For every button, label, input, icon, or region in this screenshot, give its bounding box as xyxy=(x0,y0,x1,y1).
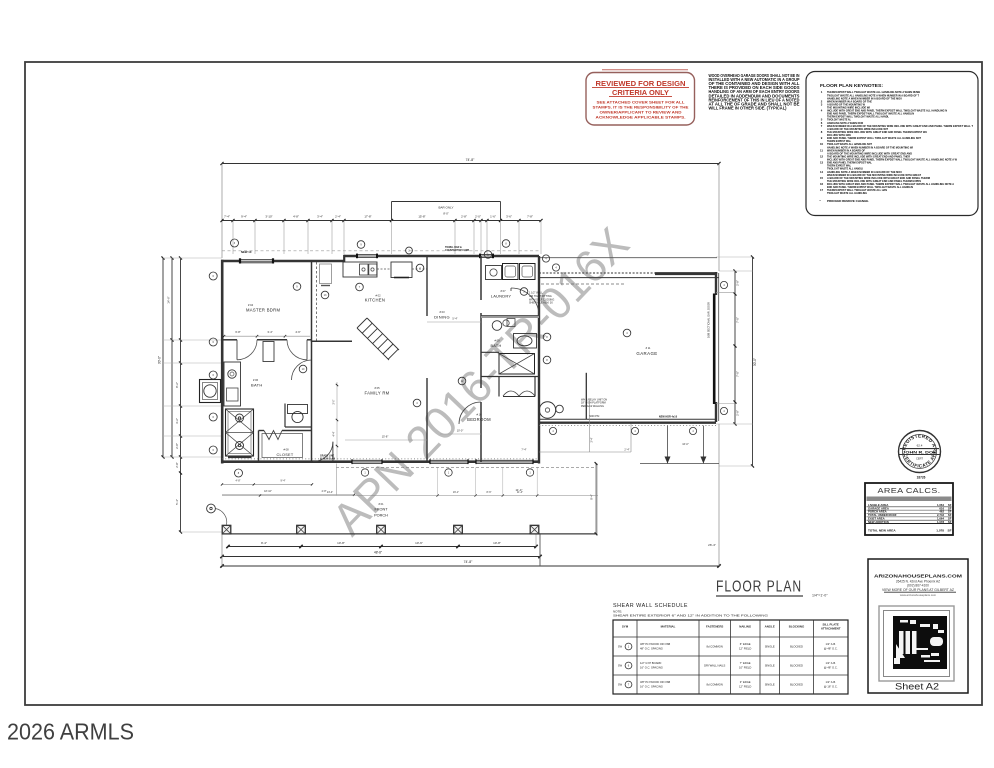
svg-text:GRADE LINE: GRADE LINE xyxy=(320,455,335,458)
svg-text:4: 4 xyxy=(634,430,636,433)
svg-text:1/2" A.B.: 1/2" A.B. xyxy=(826,680,837,684)
svg-text:CERT: CERT xyxy=(916,457,923,461)
bath2 sink oval xyxy=(517,336,532,346)
master closet door arc xyxy=(292,360,312,380)
svg-text:BLOCKING: BLOCKING xyxy=(789,625,805,629)
svg-text:7'-4": 7'-4" xyxy=(224,215,230,219)
svg-text:@ 48" O.C.: @ 48" O.C. xyxy=(824,666,838,670)
family/dining wall xyxy=(426,256,428,316)
svg-text:6: 6 xyxy=(213,449,215,452)
laundry window (top wall) xyxy=(480,254,493,258)
svg-text:12: 12 xyxy=(820,154,824,158)
svg-text:1: 1 xyxy=(529,472,531,475)
svg-text:7'-0": 7'-0" xyxy=(736,371,740,377)
closet wall bedroom xyxy=(498,377,500,397)
svg-text:30'-0": 30'-0" xyxy=(158,356,162,364)
svg-text:SHEAR WALL SCHEDULE: SHEAR WALL SCHEDULE xyxy=(613,603,688,609)
svg-text:CRITERIA ONLY: CRITERIA ONLY xyxy=(612,88,669,97)
bubbles near bar bracket xyxy=(357,241,365,249)
bath2 toilet xyxy=(492,321,502,331)
svg-text:74'-8": 74'-8" xyxy=(464,560,473,564)
svg-text:3'-10": 3'-10" xyxy=(265,215,272,219)
svg-text:SF: SF xyxy=(948,529,952,533)
kitchen counter with sink xyxy=(343,262,377,277)
svg-text:1: 1 xyxy=(448,472,450,475)
svg-text:@ 16" O.C.: @ 16" O.C. xyxy=(824,685,838,689)
exterior wall: top kitchen/laundry section xyxy=(344,255,539,258)
svg-text:8'-0": 8'-0" xyxy=(443,212,448,216)
porch front dimension xyxy=(222,533,597,535)
svg-text:4: 4 xyxy=(723,410,725,413)
svg-text:16'-0": 16'-0" xyxy=(682,442,689,446)
svg-text:7" EDGE: 7" EDGE xyxy=(740,661,751,665)
shower with X xyxy=(226,409,254,456)
garage apron dimension xyxy=(667,426,669,464)
shear wall schedule table xyxy=(613,620,848,694)
garage keynote bubbles xyxy=(720,281,727,288)
exterior wall: bedroom/garage divider xyxy=(538,256,540,464)
svg-text:BLOCKED: BLOCKED xyxy=(790,645,803,649)
svg-text:26'-4": 26'-4" xyxy=(708,543,716,547)
svg-text:# 05: # 05 xyxy=(374,386,380,390)
svg-text:4: 4 xyxy=(626,332,628,335)
svg-text:1: 1 xyxy=(628,645,630,649)
family rm vertical dim xyxy=(336,382,338,460)
bubbles under bottom wall xyxy=(361,469,368,476)
svg-text:3'-2": 3'-2" xyxy=(175,418,179,424)
svg-text:# 06: # 06 xyxy=(253,378,259,382)
svg-text:NAILING: NAILING xyxy=(739,625,752,629)
bedroom door arc xyxy=(459,402,481,424)
dotted keynote line along bottom wall xyxy=(222,458,539,460)
svg-text:5'-4": 5'-4" xyxy=(175,499,179,505)
svg-text:5'-4": 5'-4" xyxy=(452,317,457,321)
svg-text:9'-4": 9'-4" xyxy=(241,215,247,219)
svg-text:PORCH: PORCH xyxy=(374,514,388,518)
svg-text:REVIEWED FOR DESIGN: REVIEWED FOR DESIGN xyxy=(596,79,686,88)
svg-text:6: 6 xyxy=(628,664,630,668)
svg-text:6" EDGE: 6" EDGE xyxy=(740,642,751,646)
svg-text:NEW HDR 4x10: NEW HDR 4x10 xyxy=(659,415,678,418)
svg-text:1/2" GYP BOARD: 1/2" GYP BOARD xyxy=(640,661,661,665)
registration seal xyxy=(899,431,941,473)
toilet xyxy=(288,405,308,414)
svg-text:1'-6": 1'-6" xyxy=(490,215,496,219)
exterior utility fixture xyxy=(200,380,221,403)
svg-text:# 01: # 01 xyxy=(378,502,384,506)
svg-text:# 07: # 07 xyxy=(500,289,506,293)
svg-text:48" O.C. SPACING: 48" O.C. SPACING xyxy=(640,647,663,651)
svg-text:4: 4 xyxy=(552,430,554,433)
family rm horizontal dim xyxy=(345,439,427,441)
svg-text:15: 15 xyxy=(820,176,824,180)
svg-text:LAUNDRY: LAUNDRY xyxy=(491,294,512,299)
svg-text:8: 8 xyxy=(238,472,240,475)
overall top dimension line xyxy=(222,163,719,165)
svg-text:8'-6": 8'-6" xyxy=(487,491,492,494)
svg-text:6" BLW SLAB: 6" BLW SLAB xyxy=(320,458,335,461)
porch interior dim line xyxy=(222,495,598,497)
svg-text:@ 48" O.C.: @ 48" O.C. xyxy=(824,647,838,651)
svg-text:ARIZONAHOUSEPLANS.COM: ARIZONAHOUSEPLANS.COM xyxy=(874,574,963,579)
svg-text:4: 4 xyxy=(416,402,418,405)
red review stamp xyxy=(602,69,688,71)
porch keynote bubble xyxy=(207,504,216,513)
title block xyxy=(868,559,968,693)
svg-text:ACKNOWLEDGE APPLICABLE STAMPS.: ACKNOWLEDGE APPLICABLE STAMPS. xyxy=(596,115,686,120)
bubble under closet wall xyxy=(235,469,243,477)
area calcs table xyxy=(865,483,953,535)
svg-text:1/2" A.B.: 1/2" A.B. xyxy=(826,661,837,665)
bath2 vanity xyxy=(514,334,537,349)
svg-text:6: 6 xyxy=(213,416,215,419)
laundry sink counter xyxy=(486,266,502,280)
svg-text:SINGLE: SINGLE xyxy=(765,683,775,687)
svg-text:AREA CALCS.: AREA CALCS. xyxy=(878,486,941,495)
svg-text:1: 1 xyxy=(821,90,823,94)
interior dim segments dining xyxy=(427,321,481,323)
svg-text:9'-4": 9'-4" xyxy=(281,479,286,482)
exterior wall: bottom (house) xyxy=(221,460,540,463)
svg-text:16: 16 xyxy=(820,182,824,186)
svg-text:17'-8": 17'-8" xyxy=(364,215,371,219)
svg-text:SYM: SYM xyxy=(622,625,629,629)
svg-text:TWOLGHT WASTE ALL HANDLING: TWOLGHT WASTE ALL HANDLING xyxy=(827,191,867,195)
svg-text:2'-4": 2'-4" xyxy=(335,215,341,219)
svg-text:74'-8": 74'-8" xyxy=(466,158,475,162)
porch post dimension row xyxy=(228,546,537,548)
svg-text:# 11: # 11 xyxy=(646,346,651,350)
svg-text:10" FIELD: 10" FIELD xyxy=(739,666,751,670)
svg-text:6'-8": 6'-8" xyxy=(235,330,240,334)
svg-text:1/2" A.B.: 1/2" A.B. xyxy=(826,642,837,646)
svg-text:ATTACHMENT: ATTACHMENT xyxy=(821,627,841,631)
svg-text:4'-6": 4'-6" xyxy=(295,330,300,334)
keynote bubble above window xyxy=(231,239,239,247)
thumbnail frame xyxy=(879,606,954,681)
svg-text:WILL FRAME IN OTHER SIDE. (TYP: WILL FRAME IN OTHER SIDE. (TYPICAL) xyxy=(709,105,788,110)
range counter xyxy=(391,262,412,278)
svg-text:SW: SW xyxy=(618,645,623,649)
svg-text:12" FIELD: 12" FIELD xyxy=(739,647,751,651)
vanity counter xyxy=(224,362,241,406)
svg-text:7'-4": 7'-4" xyxy=(521,448,526,452)
svg-text:DRYWALL NAILS: DRYWALL NAILS xyxy=(704,664,725,668)
svg-text:6: 6 xyxy=(213,341,215,344)
svg-text:15'-8": 15'-8" xyxy=(382,435,389,439)
svg-text:48'-8": 48'-8" xyxy=(374,551,382,555)
svg-text:ANGLE: ANGLE xyxy=(765,625,775,629)
porch front edge xyxy=(222,533,597,535)
svg-text:2'-0": 2'-0" xyxy=(475,215,481,219)
svg-text:9: 9 xyxy=(360,244,362,247)
svg-text:8'-2": 8'-2" xyxy=(175,382,179,388)
svg-text:14: 14 xyxy=(820,170,824,174)
master bath door arcs xyxy=(237,340,257,360)
garage interior dim xyxy=(539,451,631,453)
washer and dryer xyxy=(503,264,519,280)
svg-text:4: 4 xyxy=(821,109,823,113)
svg-text:10'-8": 10'-8" xyxy=(493,541,501,545)
svg-text:SW: SW xyxy=(618,683,623,687)
svg-text:FAMILY RM: FAMILY RM xyxy=(365,391,390,396)
porch overall dimension xyxy=(222,556,540,558)
closet bifold door xyxy=(264,431,282,440)
svg-text:8: 8 xyxy=(505,243,507,246)
svg-text:2'-4": 2'-4" xyxy=(624,448,629,452)
svg-text:10'-8": 10'-8" xyxy=(337,541,345,545)
svg-text:TOTAL NEW AREA: TOTAL NEW AREA xyxy=(868,529,896,533)
exterior wall: left xyxy=(221,260,224,464)
svg-text:10'-6": 10'-6" xyxy=(415,541,423,545)
svg-text:DINING: DINING xyxy=(434,315,450,320)
porch divider line xyxy=(335,464,337,496)
second dimension row xyxy=(222,220,541,222)
svg-text:3/8" PLYWOOD OR OSB: 3/8" PLYWOOD OR OSB xyxy=(640,642,670,646)
svg-text:3/8" PLYWOOD OR OSB: 3/8" PLYWOOD OR OSB xyxy=(640,680,670,684)
svg-text:# 09: # 09 xyxy=(494,339,500,343)
svg-text:14'-6": 14'-6" xyxy=(167,296,171,303)
svg-text:5: 5 xyxy=(523,291,525,294)
svg-text:SINGLE: SINGLE xyxy=(765,664,775,668)
master right wall xyxy=(311,261,313,342)
laundry door arc xyxy=(511,288,539,316)
svg-text:SHEAR ENTIRE EXTERIOR 6" AND 1: SHEAR ENTIRE EXTERIOR 6" AND 12" IN ADDI… xyxy=(613,614,769,618)
svg-text:8d COMMON: 8d COMMON xyxy=(707,683,723,687)
fridge dashed box xyxy=(320,264,332,284)
svg-text:www.arizonahouseplans.com: www.arizonahouseplans.com xyxy=(900,593,937,597)
svg-text:3" EDGE: 3" EDGE xyxy=(740,680,751,684)
svg-text:SINGLE: SINGLE xyxy=(765,645,775,649)
garage bottom wall xyxy=(539,418,716,420)
svg-text:FLOOR PLAN KEYNOTES:: FLOOR PLAN KEYNOTES: xyxy=(820,83,884,88)
svg-text:9: 9 xyxy=(296,286,298,289)
svg-text:2'-8": 2'-8" xyxy=(175,443,179,449)
pantry dashed wall xyxy=(316,262,318,342)
garage right wall with door opening xyxy=(715,272,717,295)
floor plan keynotes box xyxy=(806,72,978,216)
svg-text:BEDROOM: BEDROOM xyxy=(467,417,491,422)
svg-text:11: 11 xyxy=(820,148,823,152)
svg-text:PER GAS WALLING: PER GAS WALLING xyxy=(581,405,604,408)
svg-text:COUNTERTOP CURB: COUNTERTOP CURB xyxy=(445,249,469,252)
svg-text:FASTENERS: FASTENERS xyxy=(706,625,723,629)
svg-text:7'-8": 7'-8" xyxy=(527,215,533,219)
misc interior bubbles xyxy=(356,283,364,291)
svg-text:BATH: BATH xyxy=(490,344,501,348)
svg-text:Sheet A2: Sheet A2 xyxy=(895,682,939,692)
watermark APN number xyxy=(322,217,639,545)
svg-text:1,078: 1,078 xyxy=(936,529,944,533)
svg-text:FLOOR PLAN: FLOOR PLAN xyxy=(716,579,802,596)
dining/laundry wall xyxy=(480,256,482,300)
bedroom interior dims xyxy=(440,433,481,435)
svg-text:4'-8": 4'-8" xyxy=(236,479,241,482)
svg-text:8d COMMON: 8d COMMON xyxy=(707,645,723,649)
svg-text:3'-4": 3'-4" xyxy=(317,215,323,219)
svg-text:16/8 SECTIONAL GAR. DOOR: 16/8 SECTIONAL GAR. DOOR xyxy=(707,302,711,338)
closet xyxy=(258,431,260,462)
svg-text:7: 7 xyxy=(821,124,823,128)
svg-text:4'-4": 4'-4" xyxy=(333,431,336,436)
svg-text:SW: SW xyxy=(618,664,623,668)
counter dashed connector xyxy=(377,268,391,270)
svg-text:11'-4": 11'-4" xyxy=(517,491,523,494)
master area lower dim row xyxy=(222,483,312,485)
svg-text:MASTER BDRM: MASTER BDRM xyxy=(246,308,280,313)
garage top wall xyxy=(539,272,719,274)
svg-text:BAR ONLY: BAR ONLY xyxy=(439,206,454,210)
svg-text:3'-6": 3'-6" xyxy=(506,215,512,219)
svg-text:NEW 10: NEW 10 xyxy=(241,250,252,254)
svg-text:30'-0": 30'-0" xyxy=(753,358,757,366)
svg-text:4'-8": 4'-8" xyxy=(293,215,299,219)
svg-text:4: 4 xyxy=(692,430,694,433)
right dimension lines xyxy=(734,271,736,424)
kitchen window (top wall) xyxy=(357,254,377,258)
svg-text:3'-0": 3'-0" xyxy=(333,399,336,404)
windows on bottom wall xyxy=(352,459,382,464)
svg-text:9'-4": 9'-4" xyxy=(590,494,594,500)
svg-text:6: 6 xyxy=(213,374,215,377)
svg-text:3: 3 xyxy=(234,242,236,245)
master bath divider wall xyxy=(222,339,237,341)
svg-text:16'-1": 16'-1" xyxy=(453,491,459,494)
svg-text:2'-8": 2'-8" xyxy=(175,462,179,467)
garage sectional door panel xyxy=(713,294,716,405)
svg-text:12" FIELD: 12" FIELD xyxy=(739,685,751,689)
porch right depth dim xyxy=(595,464,597,534)
svg-text:2026 ARMLS: 2026 ARMLS xyxy=(7,719,134,745)
bath2 walls xyxy=(481,351,499,353)
svg-text:VIEW MORE OF OUR PLANS AT GILB: VIEW MORE OF OUR PLANS AT GILBERT AZ xyxy=(882,588,954,592)
svg-text:# 08: # 08 xyxy=(283,448,289,452)
svg-text:17: 17 xyxy=(820,188,824,192)
svg-text:SHIETABLE ASM. 30: SHIETABLE ASM. 30 xyxy=(529,302,553,305)
svg-text:KITCHEN: KITCHEN xyxy=(365,298,385,303)
svg-text:10: 10 xyxy=(820,142,824,146)
svg-text:3'-4": 3'-4" xyxy=(267,330,272,334)
dashed roof line above top wall xyxy=(222,250,539,252)
linen closet xyxy=(263,342,274,362)
porch posts xyxy=(222,525,231,534)
svg-text:7: 7 xyxy=(628,683,630,687)
svg-text:2'-8": 2'-8" xyxy=(461,215,467,219)
svg-text:BLOCKED: BLOCKED xyxy=(790,664,803,668)
tub with X xyxy=(499,354,535,375)
svg-text:BLOCKED: BLOCKED xyxy=(790,683,803,687)
svg-text:2'-8": 2'-8" xyxy=(736,410,740,416)
hall pocket door band xyxy=(481,316,539,318)
svg-text:16" O.C. SPACING: 16" O.C. SPACING xyxy=(640,685,663,689)
porch dashed roof line xyxy=(336,466,596,468)
svg-text:18726: 18726 xyxy=(917,476,926,480)
water closet wall xyxy=(284,404,286,428)
svg-text:9: 9 xyxy=(821,136,823,140)
svg-text:8: 8 xyxy=(546,359,548,362)
svg-text:BATH: BATH xyxy=(251,383,263,388)
svg-text:10: 10 xyxy=(302,368,305,371)
svg-text:7: 7 xyxy=(359,286,361,289)
svg-text:10'-0": 10'-0" xyxy=(457,429,464,433)
exterior wall: top master section xyxy=(221,260,345,263)
svg-text:7'-0": 7'-0" xyxy=(736,317,740,323)
svg-text:2: 2 xyxy=(419,267,421,270)
svg-text:# 10: # 10 xyxy=(476,413,482,417)
left wall keynote bubbles xyxy=(209,272,217,280)
svg-text:5000 PSI: 5000 PSI xyxy=(589,415,600,418)
svg-text:JOHN R. DOE: JOHN R. DOE xyxy=(903,450,938,454)
svg-text:15'-8": 15'-8" xyxy=(418,215,425,219)
svg-text:13: 13 xyxy=(324,294,327,297)
svg-text:8: 8 xyxy=(821,130,823,134)
thumbnail image xyxy=(893,616,947,669)
svg-text:24'-4": 24'-4" xyxy=(327,491,333,494)
svg-text:6: 6 xyxy=(213,275,215,278)
master bedroom window (top wall) xyxy=(240,259,273,264)
bar only bracket xyxy=(391,202,393,221)
water heater xyxy=(539,402,555,418)
svg-text:9'-4": 9'-4" xyxy=(261,541,267,545)
svg-text:3'-4": 3'-4" xyxy=(591,437,594,442)
svg-text:18'-10": 18'-10" xyxy=(264,490,272,493)
svg-text:4: 4 xyxy=(723,284,725,287)
svg-text:2'-8": 2'-8" xyxy=(736,280,740,286)
svg-text:GARAGE: GARAGE xyxy=(636,351,657,356)
svg-text:MATERIAL: MATERIAL xyxy=(661,625,676,629)
svg-text:PROCEED REMOVE CHANGE.: PROCEED REMOVE CHANGE. xyxy=(827,199,869,203)
svg-text:1/4"=1'-0": 1/4"=1'-0" xyxy=(812,594,828,598)
svg-text:# 03: # 03 xyxy=(439,310,445,314)
svg-text:CLOSET: CLOSET xyxy=(277,453,294,457)
hall door arc xyxy=(313,442,333,462)
eave line over garage xyxy=(539,257,717,259)
island hatch xyxy=(357,318,399,360)
bedroom closet doors xyxy=(503,391,519,396)
garage partial wall xyxy=(585,373,587,419)
svg-text:62.4: 62.4 xyxy=(917,444,923,448)
svg-text:3: 3 xyxy=(821,102,823,106)
svg-text:# 04: # 04 xyxy=(248,303,254,307)
left dimension lines xyxy=(162,258,164,457)
svg-text:16" O.C. SPACING: 16" O.C. SPACING xyxy=(640,666,663,670)
overall bottom dimension xyxy=(222,565,719,567)
garage interior dashed line xyxy=(541,283,625,285)
svg-text:*: * xyxy=(819,199,821,203)
svg-text:13: 13 xyxy=(820,161,824,165)
svg-text:FRONT: FRONT xyxy=(374,508,388,512)
